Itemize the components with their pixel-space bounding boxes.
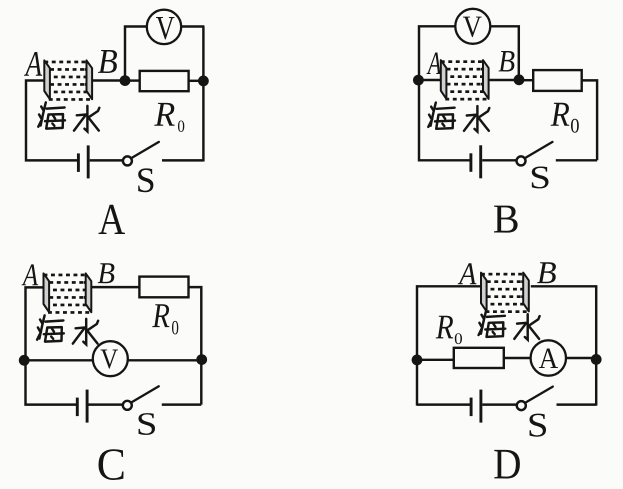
- label: seawater 海水 (circuit B): [428, 103, 489, 132]
- label: answer choice C: [98, 449, 123, 480]
- seawater cell with electrodes A and B (circuit A): [44, 60, 92, 100]
- wire: voltmeter to top-left corner, down to left node (circuit A): [125, 27, 147, 81]
- wire: right node to resistor R0 (circuit B): [519, 79, 533, 81]
- wire: switch S to bottom-right corner (circuit C): [162, 403, 202, 405]
- battery (circuit C): [77, 390, 87, 423]
- resistor R0 (circuit D): [454, 348, 504, 368]
- label: R of R0 (circuit B): [551, 103, 570, 126]
- label: S switch (circuit B): [532, 166, 549, 188]
- label: R of R0 (circuit D): [436, 316, 454, 339]
- wire: left node to resistor R0 (circuit A): [125, 79, 140, 81]
- voltmeter V (circuit B): [455, 9, 490, 44]
- label: S switch (circuit C): [139, 413, 155, 435]
- node: junction dot right of R0 (circuit A): [198, 76, 209, 87]
- label: subscript 0 of R0 (circuit C): [172, 321, 178, 334]
- wire: top-right corner to voltmeter (circuit A): [181, 25, 204, 27]
- wire: battery to switch S (circuit C): [88, 403, 123, 405]
- label: seawater 海水 (circuit D): [479, 311, 540, 340]
- wire: left rail down and to battery (circuit B): [419, 80, 471, 160]
- node: junction dot left of R0 (circuit A): [120, 75, 131, 86]
- seawater cell with electrodes A and B (circuit C): [44, 273, 92, 313]
- label: R of R0 (circuit C): [152, 304, 169, 327]
- wire: cell electrode A to left rail, down along left side to battery (circuit C): [26, 287, 78, 404]
- switch S (circuit D): [517, 387, 553, 411]
- switch S (circuit B): [517, 142, 553, 166]
- wire: switch S to bottom-right corner (circuit B): [556, 159, 597, 161]
- label: electrode A (circuit D): [458, 263, 477, 284]
- resistor R0 (circuit C): [139, 277, 188, 298]
- wire: left node to cell electrode A (circuit B): [418, 79, 440, 81]
- wire: battery to switch S (circuit B): [482, 159, 516, 161]
- wire: resistor R0 to right rail down (circuit B): [582, 80, 597, 160]
- label: electrode B (circuit B): [498, 51, 514, 71]
- wire: left node up and to voltmeter (circuit B): [419, 26, 455, 80]
- voltmeter V (circuit A): [147, 10, 181, 44]
- resistor R0 (circuit A): [140, 71, 189, 91]
- label: subscript 0 of R0 (circuit B): [571, 119, 579, 133]
- battery (circuit A): [78, 145, 88, 178]
- wire: left node to voltmeter (circuit C): [26, 359, 94, 361]
- label: subscript 0 of R0 (circuit A): [178, 120, 184, 131]
- wire: bottom-left corner to battery (circuit D): [417, 403, 471, 405]
- label: R of R0 (circuit A): [154, 103, 174, 126]
- wire: switch S to bottom-right corner (circuit A): [162, 159, 203, 161]
- label: electrode B (circuit C): [98, 263, 115, 283]
- label: electrode A (circuit B): [427, 53, 442, 74]
- node: junction dot left of cell (circuit B): [413, 75, 424, 86]
- node: junction dot right (circuit C): [196, 354, 207, 365]
- resistor R0 (circuit B): [533, 70, 582, 91]
- node: junction dot right (circuit D): [591, 354, 602, 365]
- wire: voltmeter to right node (circuit B): [490, 26, 519, 80]
- battery (circuit D): [471, 390, 481, 423]
- switch S (circuit A): [123, 142, 159, 166]
- wire: ammeter to right node (circuit D): [566, 357, 596, 359]
- wire: switch S to bottom-right corner (circuit D): [557, 403, 597, 405]
- seawater cell with electrodes A and B (circuit D): [481, 273, 529, 313]
- label: electrode B (circuit A): [98, 50, 117, 73]
- wire: battery to switch S (circuit D): [482, 403, 517, 405]
- label: seawater 海水 (circuit C): [37, 315, 98, 344]
- label: S switch (circuit D): [530, 414, 546, 437]
- label: answer choice D: [494, 450, 520, 479]
- label: seawater 海水 (circuit A): [38, 102, 99, 131]
- switch S (circuit C): [123, 386, 159, 410]
- wire: resistor R0 to ammeter (circuit D): [504, 357, 531, 359]
- node: junction dot left (circuit D): [412, 355, 423, 366]
- wire: cell electrode B to right node (circuit B): [489, 79, 519, 81]
- label: electrode A (circuit A): [24, 52, 42, 76]
- voltmeter V (circuit C): [93, 341, 128, 376]
- label: subscript 0 of R0 (circuit D): [455, 333, 462, 344]
- ammeter A (circuit D): [531, 340, 566, 375]
- label: electrode A (circuit C): [22, 264, 39, 285]
- node: junction dot left (circuit C): [19, 355, 30, 366]
- label: answer choice B: [494, 206, 518, 233]
- label: answer choice A: [98, 205, 125, 234]
- wire: cell electrode B to left node (circuit A): [93, 79, 126, 81]
- wire: resistor R0 to right node (circuit A): [189, 80, 204, 82]
- wire: left node to resistor R0 (circuit D): [417, 359, 454, 361]
- seawater cell with electrodes A and B (circuit B): [441, 60, 489, 100]
- node: junction dot right of cell (circuit B): [514, 74, 525, 85]
- wire: A-cell electrode A to left rail, down and along bottom to battery: [26, 81, 78, 161]
- wire: resistor R0 to right rail down (circuit C): [189, 287, 202, 405]
- wire: right rail (circuit A): [202, 27, 204, 162]
- wire: left rail up and to cell electrode A (circuit D): [417, 286, 481, 405]
- wire: cell electrode B to resistor R0 (circuit C): [92, 286, 140, 288]
- battery (circuit B): [471, 145, 481, 178]
- label: electrode B (circuit D): [537, 262, 556, 283]
- wire: cell electrode B to top-right corner, down right rail (circuit D): [531, 286, 596, 405]
- wire: voltmeter to right node (circuit C): [127, 359, 201, 361]
- wire: battery positive to switch S (circuit A): [90, 159, 123, 161]
- label: S switch (circuit A): [138, 168, 153, 192]
